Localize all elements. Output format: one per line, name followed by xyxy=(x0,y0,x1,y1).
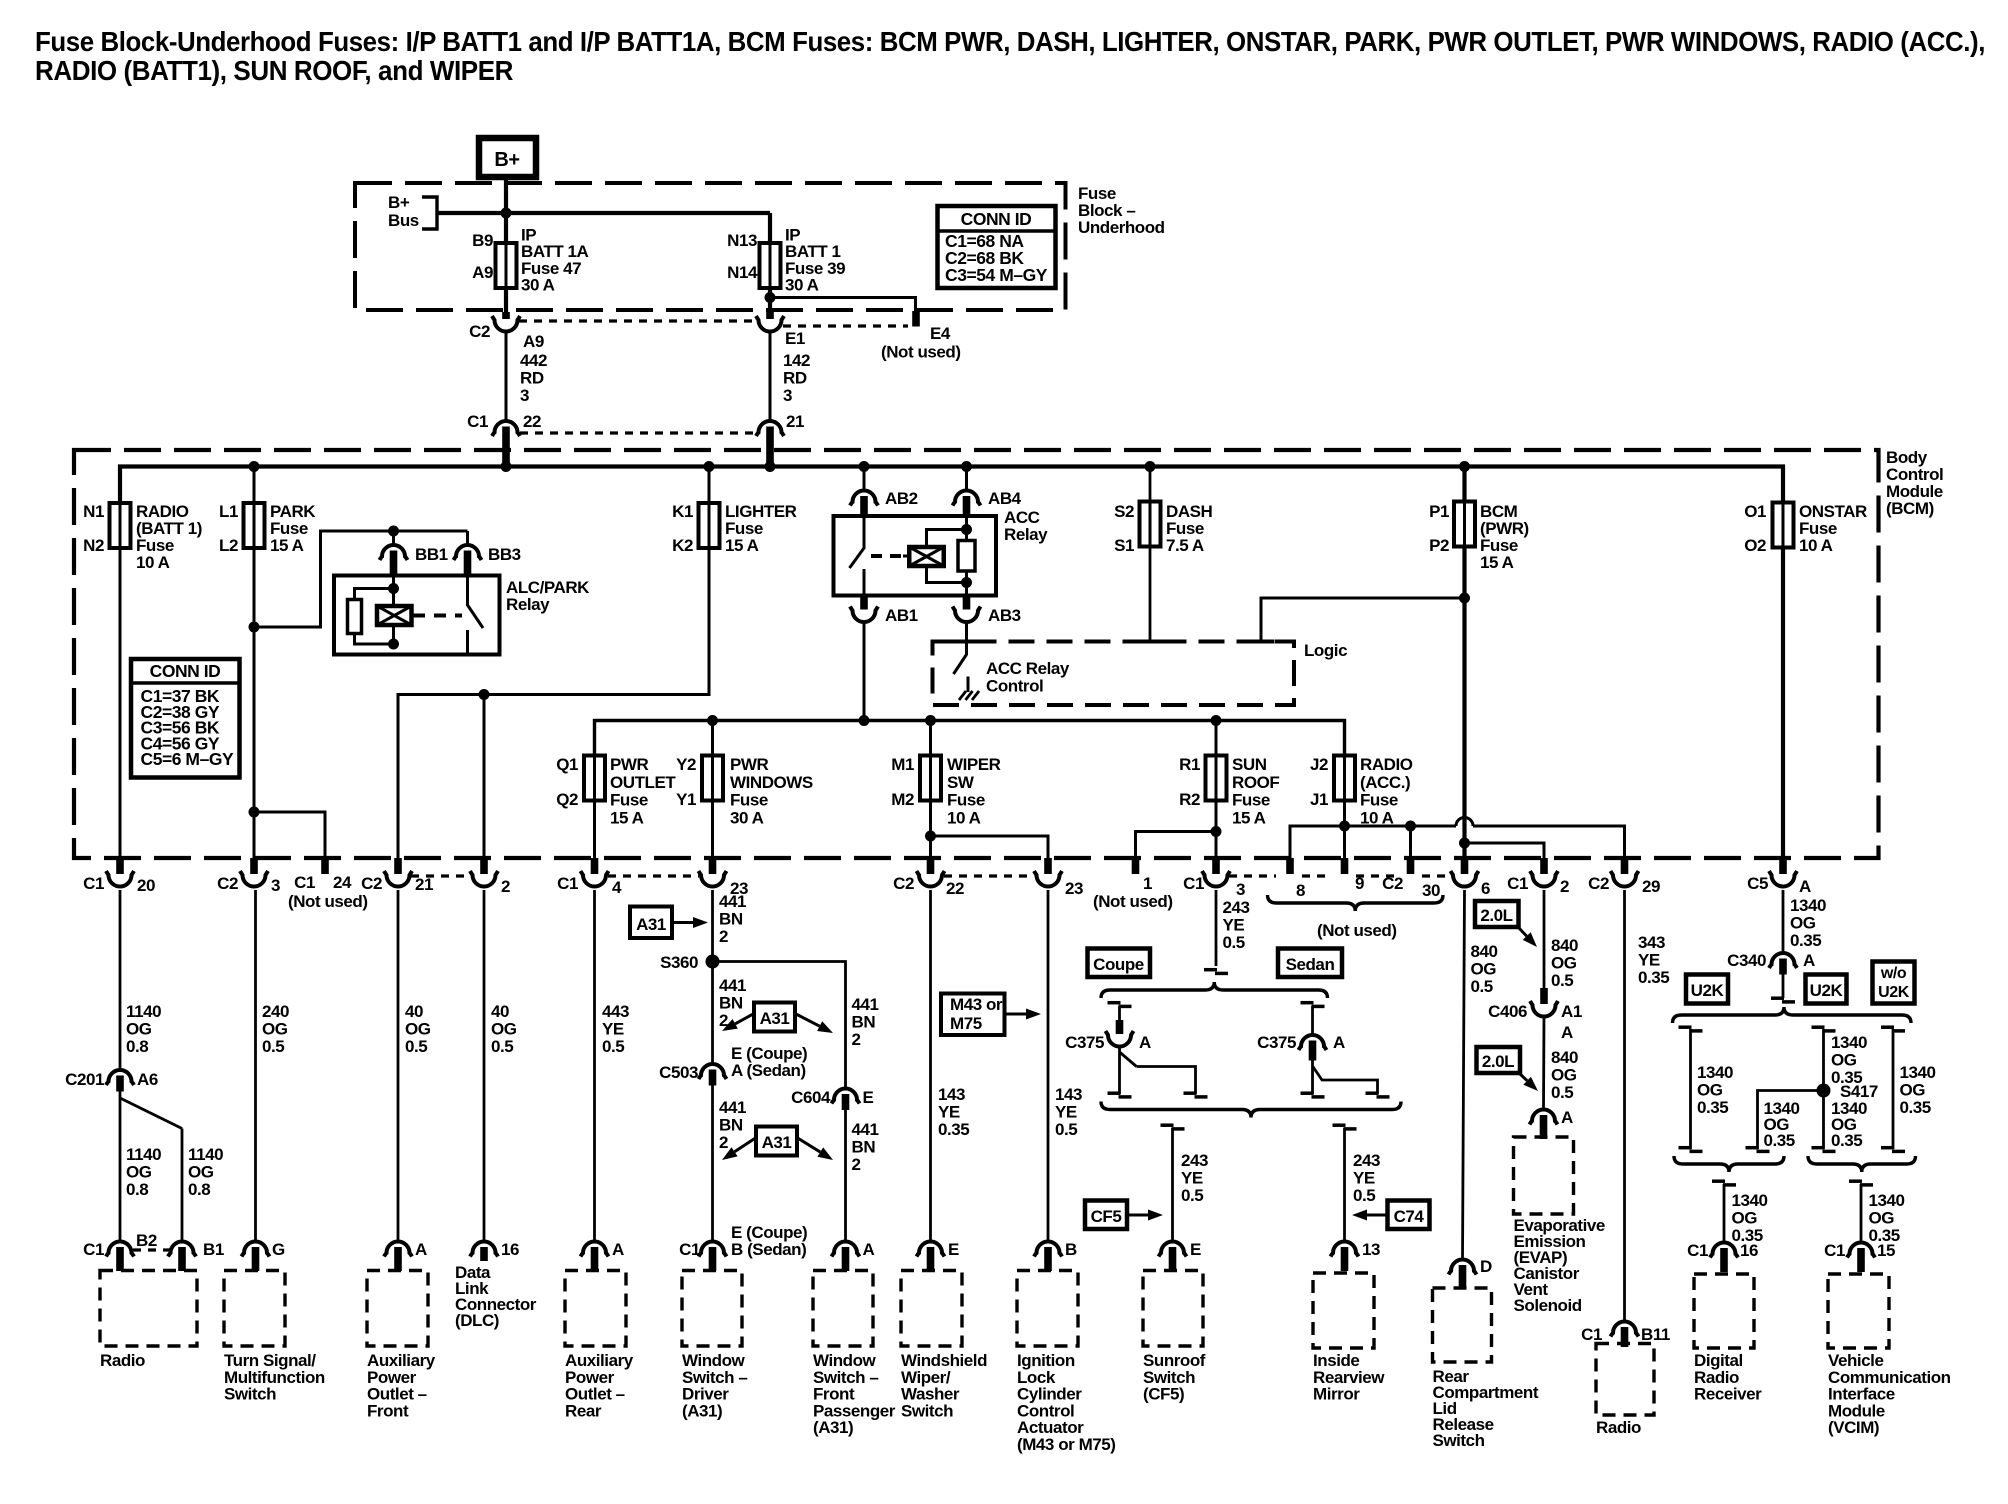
svg-text:2: 2 xyxy=(501,877,510,896)
svg-text:OG: OG xyxy=(188,1163,214,1182)
svg-text:C1: C1 xyxy=(83,874,104,893)
svg-text:0.5: 0.5 xyxy=(262,1037,284,1056)
component Windshield Wiper Washer Switch xyxy=(901,1271,962,1347)
component Digital Radio Receiver xyxy=(1694,1274,1754,1348)
fuse DASH 7.5A xyxy=(1149,467,1152,502)
connector C340 A xyxy=(1769,953,1797,968)
svg-text:3: 3 xyxy=(1236,880,1245,899)
wire xyxy=(355,634,394,645)
svg-text:E: E xyxy=(863,1088,874,1107)
connector 21 to BCM xyxy=(756,421,784,436)
svg-text:40: 40 xyxy=(491,1002,509,1021)
svg-text:142: 142 xyxy=(783,351,810,370)
wire xyxy=(504,177,508,243)
svg-text:C1: C1 xyxy=(83,1240,104,1259)
svg-text:OG: OG xyxy=(1551,1066,1577,1085)
svg-text:YE: YE xyxy=(602,1020,624,1039)
acc relay control switch xyxy=(965,642,968,656)
svg-text:(CF5): (CF5) xyxy=(1143,1385,1184,1404)
wire xyxy=(1149,547,1152,642)
svg-text:0.35: 0.35 xyxy=(938,1120,969,1139)
callout A31 lower xyxy=(756,1127,797,1156)
svg-text:K2: K2 xyxy=(672,536,693,555)
connector C1 2 xyxy=(1540,858,1548,874)
svg-text:C1: C1 xyxy=(1183,874,1204,893)
svg-text:OG: OG xyxy=(491,1020,517,1039)
fuse WIPER SW 10A xyxy=(929,721,932,756)
svg-text:0.8: 0.8 xyxy=(126,1180,148,1199)
svg-text:20: 20 xyxy=(137,876,155,895)
svg-text:2: 2 xyxy=(852,1155,861,1174)
svg-text:10 A: 10 A xyxy=(136,553,170,572)
wire to ALC relay xyxy=(254,531,468,627)
wire xyxy=(119,548,122,858)
svg-text:WIPER: WIPER xyxy=(947,755,1001,774)
svg-text:441: 441 xyxy=(852,1120,879,1139)
wire xyxy=(1781,548,1785,859)
wire 243 YE 0.5 mirror xyxy=(1333,1123,1346,1127)
svg-text:0.5: 0.5 xyxy=(1471,977,1493,996)
fuse RADIO ACC 10A xyxy=(1343,754,1346,803)
body control module box xyxy=(74,450,1879,858)
svg-text:0.35: 0.35 xyxy=(1790,931,1821,950)
junction xyxy=(1405,821,1416,832)
svg-text:N2: N2 xyxy=(83,536,104,555)
wire 441 BN 2 xyxy=(711,890,714,1064)
svg-text:R2: R2 xyxy=(1179,790,1200,809)
svg-text:30 A: 30 A xyxy=(730,808,764,827)
wire xyxy=(768,213,772,243)
brace not used 8 9 30 xyxy=(1268,895,1444,911)
svg-text:840: 840 xyxy=(1551,936,1578,955)
junction xyxy=(765,292,776,303)
fuse ONSTAR 10A xyxy=(1782,501,1785,550)
svg-text:C1: C1 xyxy=(1581,1325,1602,1344)
svg-text:0.8: 0.8 xyxy=(126,1037,148,1056)
connector C2 22 xyxy=(927,858,935,874)
svg-text:w/o: w/o xyxy=(1880,965,1907,982)
svg-text:J1: J1 xyxy=(1310,790,1328,809)
svg-text:15 A: 15 A xyxy=(270,536,304,555)
relay coil circuit xyxy=(392,576,395,607)
svg-text:441: 441 xyxy=(719,1098,746,1117)
connector C1 15 xyxy=(1847,1243,1875,1258)
svg-text:(Not used): (Not used) xyxy=(1317,921,1397,940)
svg-text:RADIO (BATT1), SUN ROOF, and W: RADIO (BATT1), SUN ROOF, and WIPER xyxy=(35,55,513,86)
junction xyxy=(707,715,718,726)
svg-text:13: 13 xyxy=(1362,1240,1380,1259)
svg-text:ACC Relay: ACC Relay xyxy=(986,659,1070,678)
svg-text:441: 441 xyxy=(719,976,746,995)
svg-text:Sedan: Sedan xyxy=(1286,955,1335,974)
connector link xyxy=(520,431,757,434)
svg-text:C3=54 M–GY: C3=54 M–GY xyxy=(945,265,1048,285)
svg-text:S2: S2 xyxy=(1114,502,1134,521)
connector E wiper xyxy=(917,1242,945,1257)
svg-text:(Not used): (Not used) xyxy=(1093,892,1173,911)
connector 23 ignition xyxy=(1044,858,1052,874)
svg-text:A31: A31 xyxy=(636,915,666,934)
svg-text:0.5: 0.5 xyxy=(1353,1186,1375,1205)
svg-text:C1: C1 xyxy=(1687,1241,1708,1260)
svg-text:OG: OG xyxy=(1790,914,1816,933)
callout A31 two arrows xyxy=(754,1003,795,1032)
wire xyxy=(1345,825,1457,828)
svg-text:15 A: 15 A xyxy=(1232,808,1266,827)
svg-text:Radio: Radio xyxy=(100,1351,145,1370)
component Window Switch Front Passenger xyxy=(813,1271,873,1347)
svg-text:1140: 1140 xyxy=(126,1002,161,1021)
component Ignition Lock Cylinder Control Actuator xyxy=(1017,1271,1078,1347)
wire 143 YE 0.5 xyxy=(1047,890,1050,1242)
conn id table fuse block xyxy=(938,206,1056,288)
svg-text:BN: BN xyxy=(852,1013,876,1032)
svg-text:N13: N13 xyxy=(727,231,757,250)
svg-text:C375: C375 xyxy=(1257,1033,1296,1052)
connector 16 dlc xyxy=(470,1242,498,1257)
svg-text:AB4: AB4 xyxy=(988,489,1022,508)
svg-text:C1: C1 xyxy=(294,873,315,892)
svg-text:A: A xyxy=(612,1240,624,1259)
svg-text:A: A xyxy=(1561,1108,1573,1127)
svg-text:YE: YE xyxy=(1638,951,1660,970)
fuse BCM PWR 15A xyxy=(1462,467,1466,502)
connector 2 xyxy=(480,858,488,874)
svg-text:(ACC.): (ACC.) xyxy=(1360,773,1410,792)
pin 9 not used xyxy=(1341,858,1349,874)
svg-text:L2: L2 xyxy=(219,536,238,555)
svg-text:10 A: 10 A xyxy=(947,808,981,827)
bus wire 2 xyxy=(595,721,1345,756)
svg-text:A9: A9 xyxy=(523,332,544,351)
connector AB4 xyxy=(965,467,968,492)
connector C1 16 xyxy=(1710,1243,1738,1258)
connector C2 29 xyxy=(1621,858,1629,874)
svg-text:1340: 1340 xyxy=(1697,1063,1733,1082)
brace U2K bottom right xyxy=(1808,1156,1916,1172)
svg-text:OG: OG xyxy=(1732,1209,1758,1228)
callout U2K 2 xyxy=(1806,975,1847,1004)
junction xyxy=(388,526,399,537)
svg-text:15 A: 15 A xyxy=(725,536,759,555)
mech link xyxy=(413,614,462,618)
component Vehicle Communication Interface Module xyxy=(1828,1274,1889,1348)
wire xyxy=(1343,801,1346,859)
svg-text:C503: C503 xyxy=(659,1063,698,1082)
wire xyxy=(593,801,596,859)
svg-text:3: 3 xyxy=(783,386,792,405)
connector C1 3 xyxy=(1212,858,1220,874)
svg-text:0.5: 0.5 xyxy=(602,1037,624,1056)
wire split xyxy=(119,1092,122,1242)
svg-text:16: 16 xyxy=(501,1240,519,1259)
junction xyxy=(1211,826,1222,837)
connector BB1 xyxy=(392,544,395,548)
svg-text:OG: OG xyxy=(126,1020,152,1039)
svg-text:A (Sedan): A (Sedan) xyxy=(731,1061,806,1080)
svg-text:(A31): (A31) xyxy=(813,1418,853,1437)
svg-text:(A31): (A31) xyxy=(682,1401,722,1420)
svg-text:C1: C1 xyxy=(679,1240,700,1259)
svg-text:4: 4 xyxy=(612,878,622,897)
fuse PWR OUTLET 15A xyxy=(593,754,596,803)
wire xyxy=(483,695,486,859)
fuse PARK 15A xyxy=(253,467,256,504)
junction xyxy=(1211,715,1222,726)
svg-text:OG: OG xyxy=(1551,954,1577,973)
wire branch 3 xyxy=(1758,1091,1824,1150)
svg-text:243: 243 xyxy=(1181,1151,1208,1170)
wire to digital radio xyxy=(1712,1179,1725,1183)
connector C2 A9 xyxy=(502,312,510,319)
pin 30 not used xyxy=(1407,858,1415,874)
svg-text:1340: 1340 xyxy=(1831,1033,1867,1052)
svg-text:Coupe: Coupe xyxy=(1093,955,1144,974)
callout 2.0L lower xyxy=(1477,1047,1521,1073)
svg-text:A31: A31 xyxy=(760,1009,790,1028)
junction xyxy=(1459,461,1470,472)
svg-text:BB1: BB1 xyxy=(415,545,448,564)
junction xyxy=(1459,593,1470,604)
svg-text:OG: OG xyxy=(262,1020,288,1039)
svg-text:A6: A6 xyxy=(137,1070,158,1089)
component Auxiliary Power Outlet Rear xyxy=(565,1271,626,1347)
connector C375 A coupe xyxy=(1108,1001,1121,1005)
connector D rear lid xyxy=(1449,1260,1477,1275)
svg-text:441: 441 xyxy=(719,892,746,911)
svg-text:M43 or: M43 or xyxy=(950,995,1003,1014)
connector 6 xyxy=(1461,858,1469,874)
svg-text:B2: B2 xyxy=(136,1231,157,1250)
svg-text:8: 8 xyxy=(1296,881,1305,900)
junction xyxy=(501,208,512,219)
brace U2K bottom left xyxy=(1674,1156,1784,1172)
svg-text:Y1: Y1 xyxy=(676,790,696,809)
junction xyxy=(249,461,260,472)
svg-text:E4: E4 xyxy=(930,324,951,343)
junction xyxy=(1339,821,1350,832)
wire xyxy=(1409,826,1412,858)
svg-text:0.5: 0.5 xyxy=(405,1037,427,1056)
callout Sedan xyxy=(1278,949,1342,978)
svg-text:0.5: 0.5 xyxy=(1551,971,1573,990)
svg-text:840: 840 xyxy=(1471,942,1498,961)
svg-text:B11: B11 xyxy=(1641,1325,1670,1344)
svg-text:2: 2 xyxy=(1560,877,1569,896)
svg-text:C2: C2 xyxy=(1588,874,1609,893)
connector E1 xyxy=(766,312,774,319)
wire xyxy=(504,288,508,312)
connector link xyxy=(519,319,757,322)
svg-text:YE: YE xyxy=(1055,1103,1077,1122)
svg-text:YE: YE xyxy=(1353,1169,1375,1188)
svg-text:CONN ID: CONN ID xyxy=(150,661,221,681)
svg-text:YE: YE xyxy=(1223,916,1245,935)
junction xyxy=(479,689,490,700)
svg-text:M2: M2 xyxy=(891,790,914,809)
wire 40 OG 0.5 xyxy=(397,890,400,1242)
svg-text:U2K: U2K xyxy=(1810,981,1844,1000)
svg-text:21: 21 xyxy=(786,412,804,431)
svg-text:OG: OG xyxy=(405,1020,431,1039)
svg-text:2.0L: 2.0L xyxy=(1480,906,1512,925)
svg-text:442: 442 xyxy=(520,351,547,370)
callout CF5 xyxy=(1085,1201,1127,1230)
svg-text:PWR: PWR xyxy=(610,755,648,774)
svg-text:40: 40 xyxy=(405,1002,423,1021)
svg-text:A: A xyxy=(863,1240,875,1259)
junction xyxy=(925,715,936,726)
svg-text:24: 24 xyxy=(333,873,352,892)
svg-text:B (Sedan): B (Sedan) xyxy=(731,1240,806,1259)
svg-text:2: 2 xyxy=(719,927,728,946)
node B+ xyxy=(479,138,536,177)
connector B1 xyxy=(168,1242,196,1257)
svg-text:C5=6 M–GY: C5=6 M–GY xyxy=(141,749,235,769)
svg-text:AB2: AB2 xyxy=(885,489,918,508)
svg-text:Switch: Switch xyxy=(224,1385,276,1404)
svg-text:Q2: Q2 xyxy=(556,790,578,809)
resistor xyxy=(965,516,968,541)
wire 40 OG 0.5 dlc xyxy=(483,890,486,1242)
svg-text:E1: E1 xyxy=(785,329,805,348)
connector 23 xyxy=(709,858,717,874)
connector C375 A sedan xyxy=(1301,1001,1314,1005)
svg-text:10 A: 10 A xyxy=(1799,536,1833,555)
svg-text:A: A xyxy=(415,1240,427,1259)
svg-text:143: 143 xyxy=(938,1085,965,1104)
svg-text:A: A xyxy=(1561,1023,1573,1042)
svg-text:A31: A31 xyxy=(762,1133,792,1152)
svg-text:Relay: Relay xyxy=(1004,525,1048,544)
connector AB1 xyxy=(860,596,868,610)
svg-text:Logic: Logic xyxy=(1304,641,1347,660)
pin 1 not used xyxy=(1132,858,1140,874)
svg-text:B9: B9 xyxy=(472,231,493,250)
svg-text:OG: OG xyxy=(1697,1081,1723,1100)
wire xyxy=(713,962,846,1089)
svg-text:OG: OG xyxy=(1471,960,1497,979)
connector link xyxy=(1302,874,1330,877)
connector link xyxy=(1356,874,1396,877)
svg-text:SW: SW xyxy=(947,773,975,792)
component Radio 2 xyxy=(1596,1344,1654,1416)
svg-text:(M43 or M75): (M43 or M75) xyxy=(1017,1435,1116,1454)
wire xyxy=(1215,801,1218,859)
svg-text:PWR: PWR xyxy=(730,755,768,774)
connector A evap xyxy=(1530,1110,1558,1125)
junction xyxy=(704,461,715,472)
relay switch xyxy=(863,516,866,549)
svg-text:Y2: Y2 xyxy=(676,755,696,774)
svg-text:Q1: Q1 xyxy=(556,755,578,774)
junction xyxy=(501,461,512,472)
svg-text:C604: C604 xyxy=(791,1088,831,1107)
callout A31 xyxy=(630,907,672,939)
svg-text:243: 243 xyxy=(1353,1151,1380,1170)
svg-text:443: 443 xyxy=(602,1002,629,1021)
svg-text:A: A xyxy=(1803,951,1815,970)
svg-text:2: 2 xyxy=(719,1133,728,1152)
svg-text:0.35: 0.35 xyxy=(1764,1131,1795,1150)
wire branch 4 xyxy=(1881,1025,1894,1029)
wire xyxy=(931,836,1049,858)
connector C406 A1 xyxy=(1540,988,1548,1004)
connector G xyxy=(242,1242,270,1257)
svg-text:A: A xyxy=(1333,1033,1345,1052)
junction xyxy=(925,831,936,842)
wire xyxy=(1782,975,1785,999)
svg-text:E: E xyxy=(948,1240,959,1259)
wire 443 YE 0.5 xyxy=(593,890,596,1242)
svg-text:22: 22 xyxy=(523,412,541,431)
svg-text:(Not used): (Not used) xyxy=(288,892,368,911)
pin C1 24 not used xyxy=(321,858,329,874)
svg-text:A: A xyxy=(1799,877,1811,896)
component Inside Rearview Mirror xyxy=(1313,1273,1374,1348)
connector link xyxy=(608,874,699,877)
connector C1 B2 xyxy=(106,1242,134,1257)
svg-text:C1: C1 xyxy=(1507,874,1528,893)
svg-text:Mirror: Mirror xyxy=(1313,1385,1360,1404)
junction xyxy=(765,461,776,472)
svg-text:1340: 1340 xyxy=(1869,1191,1905,1210)
splice S417 xyxy=(1817,1084,1831,1098)
callout 2.0L upper xyxy=(1475,901,1519,927)
svg-text:Fuse: Fuse xyxy=(610,791,648,810)
svg-text:BN: BN xyxy=(719,910,743,929)
svg-text:RD: RD xyxy=(783,369,807,388)
svg-text:3: 3 xyxy=(271,876,280,895)
svg-text:S1: S1 xyxy=(1114,536,1134,555)
svg-text:Fuse: Fuse xyxy=(947,791,985,810)
wire 1140 OG 0.8 xyxy=(119,890,122,1070)
svg-text:U2K: U2K xyxy=(1878,984,1910,1001)
wire xyxy=(863,621,866,721)
svg-text:ROOF: ROOF xyxy=(1232,773,1279,792)
svg-text:U2K: U2K xyxy=(1691,981,1725,1000)
connector C5 A xyxy=(1779,858,1787,874)
svg-text:Bus: Bus xyxy=(388,211,419,230)
wire 143 YE 0.35 xyxy=(929,890,932,1242)
connector C2 3 xyxy=(250,858,258,874)
ACC relay control logic box xyxy=(933,642,1295,706)
fuse PWR WINDOWS 30A xyxy=(711,721,714,756)
svg-text:1140: 1140 xyxy=(188,1145,223,1164)
svg-text:C2: C2 xyxy=(217,874,238,893)
callout C74 xyxy=(1388,1201,1430,1230)
svg-text:R1: R1 xyxy=(1179,755,1200,774)
svg-text:OUTLET: OUTLET xyxy=(610,773,676,792)
svg-text:2: 2 xyxy=(852,1030,861,1049)
junction xyxy=(1459,838,1470,849)
fuse RADIO BATT 1 10A xyxy=(119,467,122,504)
svg-text:BN: BN xyxy=(852,1138,876,1157)
wire xyxy=(929,801,932,859)
svg-text:B+: B+ xyxy=(388,193,410,212)
svg-text:C1: C1 xyxy=(467,412,488,431)
pin 8 not used xyxy=(1286,858,1294,874)
svg-text:0.35: 0.35 xyxy=(1697,1098,1728,1117)
svg-text:S360: S360 xyxy=(660,953,698,972)
wire xyxy=(505,331,508,422)
svg-text:K1: K1 xyxy=(672,502,693,521)
svg-text:OG: OG xyxy=(1900,1081,1926,1100)
box edge dashes at crossings xyxy=(954,640,980,644)
wire to E4 xyxy=(770,298,916,312)
connector B ignition xyxy=(1034,1242,1062,1257)
callout Coupe xyxy=(1088,949,1151,978)
